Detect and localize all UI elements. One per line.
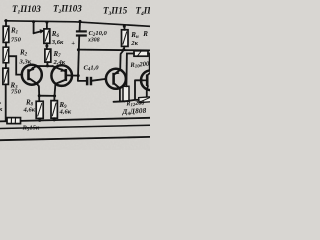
wire: C4 to T3 base [92,79,106,81]
wire: R10 left down to R11 [126,54,134,87]
top labels [12,4,155,18]
node: Rn T3-emitter rail junction [122,48,125,51]
wire: bus to R6 wiper [33,22,35,34]
wire: T4 base left and down [135,80,143,100]
node: T2 base junction [77,74,80,77]
resistor R3 [3,68,8,84]
label R8 4,6k [23,99,36,114]
wire: R10 right to T4 [148,53,150,71]
wire: R3 down to bottom bus [5,84,7,121]
label C2 polarity plus and C2 10,0 x308 [71,30,107,47]
wire: component bottom bus [0,118,150,122]
wire: trimmer arrow [34,31,43,33]
resistor R5 [7,118,21,124]
wire: R8 to bottom bus [39,118,41,120]
node: bus tap for R6 wiper [32,20,35,23]
node: bus C2 junction [79,20,82,23]
node: bus left [5,19,8,22]
label R3 750 [10,82,22,96]
wire: bus to C2 [79,21,81,30]
resistor R10 [134,51,148,56]
left edge cropped labels [0,99,3,113]
node: T1 collector junction [38,94,41,97]
resistor Rn [122,30,129,47]
wire: collector junction [114,100,125,103]
wire: bottom frame line [0,137,150,140]
svg-text:х308: х308 [87,38,100,44]
svg-text:3,6к: 3,6к [51,39,64,46]
svg-text:750: 750 [11,89,22,96]
label R10 200 [129,61,150,70]
transistor T2 [51,65,72,86]
resistor R6 [44,29,50,43]
resistor R7 [45,49,51,62]
wire: R1 to R2 [5,42,7,47]
transistor T3 [106,69,126,89]
node: trimmer arrowhead [40,29,45,33]
wire: T1 base [9,56,23,74]
svg-text:R515к: R515к [22,125,40,133]
wire: C2 down to T2 base / C4 [78,37,79,81]
node: R9 bottom junction [53,118,56,121]
wire: R6 to R7 [46,43,48,49]
node: R6-R7 junction [45,44,48,47]
wire: T2 collector to R9 [54,84,55,101]
svg-text:750: 750 [11,37,22,44]
node: R7 emitter-wire junction [46,64,49,67]
capacitor C4 [86,77,92,86]
transistor T1 [22,65,42,85]
resistor R9 [51,101,57,119]
transistor T4 [141,70,161,90]
svg-text:4,6к: 4,6к [59,109,72,116]
svg-text:Т3П15: Т3П15 [103,6,128,18]
wire: R12 left lead [125,100,139,102]
label R7 2,4k [53,50,66,66]
node: C2 mid-rail junction [77,48,80,51]
label cropped right R [142,30,148,38]
svg-text:4,6к: 4,6к [23,107,36,114]
wire: R9 to bottom bus [53,118,55,120]
label Rn 2k [130,31,139,47]
wire: node to C4 left [78,80,86,82]
resistor R12 [139,97,152,103]
wire: bus to R6 [46,22,48,29]
wire: emitter resistors link [39,95,54,97]
label R2 3,3k [19,49,32,66]
wire: T4 emitter down [146,90,148,98]
svg-text:Т2П103: Т2П103 [53,4,82,16]
wire: R7 to emitter wire [46,62,48,66]
wire: mid rail [79,49,150,52]
node: bus to R6 junction [45,21,48,24]
node: R8 bottom junction [38,119,41,122]
svg-text:Т1П103: Т1П103 [12,4,41,16]
wire: T1 emitter to common [36,65,53,67]
resistor R11 [123,86,129,101]
label R1 750 [10,27,22,44]
wire: top supply bus [5,21,150,27]
wire: T3 collector down [119,88,121,101]
node: bus Rn junction [123,25,126,28]
svg-text:Д4Д808: Д4Д808 [121,107,147,116]
svg-text:C41,0: C41,0 [84,65,100,73]
svg-text:+: + [71,40,75,47]
svg-text:2к: 2к [130,40,138,47]
wire: T3 emitter up to rail [120,50,124,70]
resistor R2 [3,47,9,63]
wire: T2 base [67,74,78,76]
svg-text:ь: ь [0,99,1,106]
label C4 1,0 [84,65,100,73]
label R5 15k [22,125,40,133]
wire: R2 to R3 [5,63,7,68]
wire: bus to Rn [123,26,125,29]
label R9 4,6k [59,101,72,116]
wire: bus to R1 [5,21,7,27]
capacitor C2 [76,30,87,36]
svg-text:R: R [142,30,148,38]
node: T2 collector junction [53,94,56,97]
wire: T1 collector down to R8 [37,83,40,101]
wire: Rn to mid rail [123,46,126,49]
label R6 3,6k [51,30,64,46]
resistor R8 [36,101,43,118]
wire: lower bus [0,125,150,128]
resistor R1 [3,26,9,42]
